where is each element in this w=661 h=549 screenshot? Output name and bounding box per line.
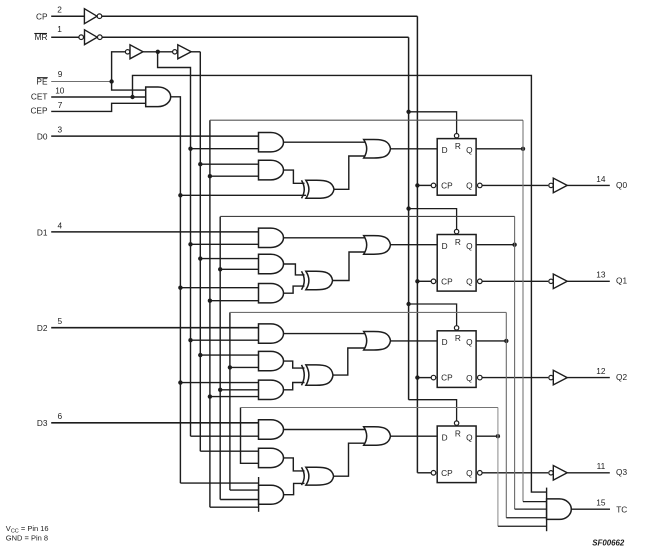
svg-text:6: 6 — [58, 411, 63, 421]
svg-text:TC: TC — [616, 505, 627, 515]
svg-text:D: D — [442, 145, 448, 155]
svg-text:R: R — [455, 428, 461, 438]
svg-text:CP: CP — [441, 180, 453, 190]
svg-text:Q: Q — [466, 337, 473, 347]
svg-text:R: R — [455, 141, 461, 151]
svg-text:Q0: Q0 — [616, 180, 627, 190]
svg-text:D3: D3 — [37, 418, 48, 428]
svg-text:GND = Pin 8: GND = Pin 8 — [6, 533, 48, 542]
svg-text:D: D — [442, 241, 448, 251]
svg-text:R: R — [455, 237, 461, 247]
svg-text:R: R — [455, 333, 461, 343]
svg-text:5: 5 — [58, 316, 63, 326]
svg-text:7: 7 — [58, 100, 63, 110]
svg-text:Q3: Q3 — [616, 467, 627, 477]
svg-text:15: 15 — [596, 498, 606, 508]
svg-text:1: 1 — [57, 24, 62, 34]
svg-text:CEP: CEP — [30, 106, 48, 116]
svg-text:13: 13 — [596, 270, 606, 280]
svg-text:Q: Q — [466, 432, 473, 442]
svg-text:Q: Q — [466, 145, 473, 155]
svg-text:D: D — [442, 337, 448, 347]
svg-text:SF00662: SF00662 — [592, 538, 625, 547]
svg-text:CP: CP — [36, 12, 48, 22]
svg-text:4: 4 — [58, 220, 63, 230]
svg-text:Q: Q — [466, 373, 473, 383]
svg-text:D0: D0 — [37, 132, 48, 142]
svg-text:D2: D2 — [37, 323, 48, 333]
svg-text:Q: Q — [466, 181, 473, 191]
svg-text:CET: CET — [31, 92, 48, 102]
svg-text:9: 9 — [58, 69, 63, 79]
svg-text:CP: CP — [441, 276, 453, 286]
svg-text:Q: Q — [466, 277, 473, 287]
svg-text:Q2: Q2 — [616, 372, 627, 382]
svg-text:12: 12 — [596, 366, 606, 376]
svg-text:D1: D1 — [37, 227, 48, 237]
svg-text:CP: CP — [441, 373, 453, 383]
svg-text:Q: Q — [466, 241, 473, 251]
svg-text:Q1: Q1 — [616, 276, 627, 286]
svg-text:CP: CP — [441, 468, 453, 478]
svg-text:14: 14 — [596, 174, 606, 184]
svg-text:Q: Q — [466, 468, 473, 478]
svg-text:2: 2 — [57, 5, 62, 15]
svg-text:3: 3 — [58, 125, 63, 135]
svg-text:11: 11 — [597, 461, 606, 471]
svg-text:10: 10 — [55, 85, 65, 95]
svg-text:D: D — [442, 432, 448, 442]
